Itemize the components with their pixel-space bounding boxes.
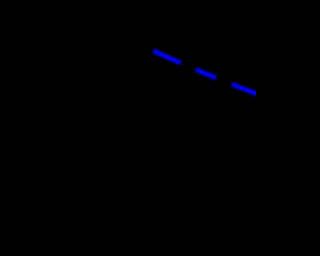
chart canvas	[0, 0, 256, 256]
blue dashed trend line: dash 1	[153, 51, 181, 63]
blue dashed trend line: dash 2	[196, 69, 216, 78]
blue dashed trend line: dash 3	[232, 84, 258, 94]
